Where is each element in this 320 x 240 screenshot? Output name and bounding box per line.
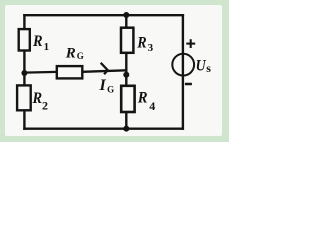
- svg-text:R: R: [137, 90, 148, 107]
- svg-text:G: G: [77, 51, 84, 61]
- svg-text:R: R: [65, 45, 76, 61]
- svg-text:3: 3: [148, 42, 154, 54]
- svg-text:U: U: [196, 57, 207, 74]
- svg-text:R: R: [136, 35, 147, 52]
- svg-text:1: 1: [44, 41, 50, 53]
- svg-text:R: R: [32, 33, 43, 50]
- svg-text:4: 4: [149, 99, 155, 113]
- svg-text:R: R: [32, 90, 43, 107]
- svg-text:G: G: [107, 84, 114, 94]
- svg-text:2: 2: [42, 98, 48, 112]
- svg-text:I: I: [99, 77, 107, 94]
- svg-text:s: s: [206, 61, 211, 75]
